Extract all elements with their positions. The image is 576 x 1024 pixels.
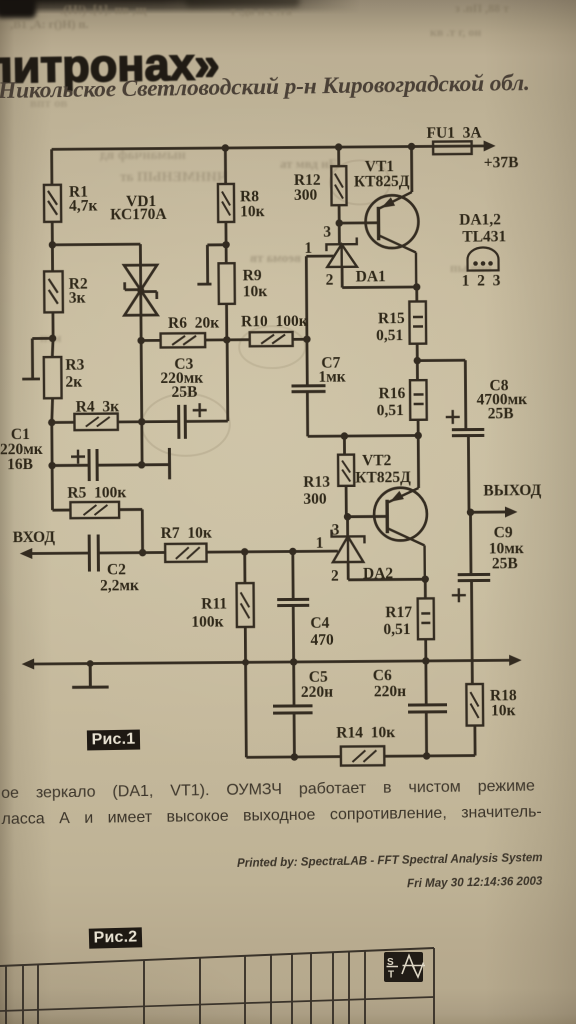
stamp smudge 3 xyxy=(330,160,390,204)
capacitor C1 xyxy=(71,449,97,481)
node R7-R11 xyxy=(241,548,248,555)
node R3-R4 xyxy=(48,419,55,426)
resistor R4 xyxy=(74,414,117,431)
resistor R17 xyxy=(418,598,434,639)
node R2-R3 xyxy=(49,335,56,342)
SpectraLAB logo xyxy=(384,952,425,982)
wire R3 bottom xyxy=(52,398,53,422)
resistor R15 xyxy=(409,301,426,343)
node VD1-R6 xyxy=(137,337,144,344)
wire output arrowhead xyxy=(505,506,518,517)
wire C5 top lead xyxy=(292,662,295,706)
capacitor C3 xyxy=(179,403,207,439)
op-amp DA1 TL431 xyxy=(326,237,357,267)
wire DA2 pin3 xyxy=(346,517,349,537)
wire R1 to R2 xyxy=(51,222,54,271)
wire left column to R5 xyxy=(52,422,71,510)
figure label Рис.1 xyxy=(87,730,140,751)
fuse FU1 xyxy=(433,141,472,154)
resistor R14 xyxy=(341,746,385,765)
resistor R8 xyxy=(218,184,234,222)
wire R11 top lead xyxy=(243,552,246,583)
wire VD1 top lead xyxy=(139,244,143,340)
wire bottom return xyxy=(246,756,475,758)
capacitor C6 xyxy=(408,705,447,712)
wire R8 top lead xyxy=(224,148,227,184)
node VT1 emitter rail xyxy=(408,143,415,150)
resistor R5 xyxy=(70,502,119,518)
wire DA1 pin1 xyxy=(306,255,334,258)
capacitor C2 xyxy=(89,534,98,571)
wire rail left arrowhead xyxy=(22,659,35,670)
resistor R3 trimmer body xyxy=(44,357,62,398)
wire VT2 base xyxy=(348,515,388,518)
node C1 left xyxy=(48,462,55,469)
resistor R6 xyxy=(161,333,206,347)
wire rail right arrowhead xyxy=(509,655,522,666)
node rail-ground xyxy=(87,660,94,667)
node VT1 collector R15 xyxy=(413,283,420,290)
wire R12 top lead xyxy=(337,147,340,166)
resistor R12 xyxy=(331,166,346,205)
wire R4 left lead xyxy=(52,421,75,424)
wire input arrowhead xyxy=(20,548,33,559)
wire R11 bottom column xyxy=(245,627,246,757)
grid right border xyxy=(433,948,435,1024)
wire R18 bottom lead xyxy=(473,726,476,756)
wire R9 bottom xyxy=(225,304,228,340)
capacitor C5 xyxy=(273,706,313,713)
resistor R2 xyxy=(44,271,63,312)
resistor R11 xyxy=(237,583,254,627)
subheading xyxy=(0,69,576,105)
node R6-R9-R10-C3 xyxy=(223,336,230,343)
wire top rail xyxy=(52,146,487,149)
wire C3 right lead riser xyxy=(185,340,228,422)
svg-text:T: T xyxy=(388,970,394,981)
TL431 package symbol xyxy=(467,247,498,270)
wire VT1 base xyxy=(339,221,378,224)
wire +37V arrowhead xyxy=(484,140,496,151)
wire R12 bottom lead xyxy=(338,205,341,223)
bleed-through marks xyxy=(60,2,147,18)
wire R3 wiper bracket xyxy=(22,338,53,379)
wire output line xyxy=(470,511,507,514)
capacitor C8 xyxy=(446,410,485,436)
wire C9-R18 column xyxy=(470,512,472,684)
node bottom-C5 xyxy=(291,753,298,760)
node DA2-R17-VT2 collector xyxy=(421,575,428,582)
wire R8 to R9 xyxy=(225,222,228,263)
node R13 top xyxy=(341,432,348,439)
resistor R13 xyxy=(338,455,354,486)
wire R13 column xyxy=(344,436,346,517)
node R7-C4 xyxy=(289,548,296,555)
wire DA2 pin2 xyxy=(348,561,425,579)
resistor R10 xyxy=(250,332,293,346)
grid second horizontal xyxy=(0,997,434,1011)
node C2-R5 xyxy=(139,549,146,556)
resistor R16 xyxy=(410,380,427,420)
wire C8 branch xyxy=(417,360,466,429)
wire C2 right lead xyxy=(98,551,165,554)
node R16-VT2 emitter xyxy=(414,432,421,439)
wire R5 right riser xyxy=(119,509,143,552)
capacitor C7 xyxy=(291,386,325,392)
wire C3 left lead xyxy=(142,420,179,423)
node 3 DA1 xyxy=(335,219,342,226)
wire C4 bottom lead xyxy=(292,605,295,661)
wire C1 left lead xyxy=(52,464,89,467)
stamp smudge 1 xyxy=(142,393,230,456)
wire R4 right lead xyxy=(118,420,142,423)
wire bottom rail xyxy=(31,660,512,664)
node rail-R17-C6 xyxy=(422,657,429,664)
ground xyxy=(72,663,109,687)
wire R15-R16 xyxy=(416,344,419,380)
resistor R1 xyxy=(44,185,61,222)
node rail-R11 xyxy=(242,659,249,666)
node R1-R2 junction xyxy=(49,241,56,248)
wire R9 wiper bracket xyxy=(197,245,226,284)
wire C4 top lead xyxy=(291,551,294,599)
wire C5 bottom lead xyxy=(293,713,296,757)
node R10-C7 column xyxy=(303,336,310,343)
wire C1 right lead xyxy=(97,463,169,466)
wire VT2 emitter lead xyxy=(417,435,420,487)
node output tap xyxy=(467,509,474,516)
wire R1 column top xyxy=(50,149,53,184)
grid top border xyxy=(0,948,434,966)
node R8-R9 xyxy=(222,241,229,248)
wire R10 left lead xyxy=(227,338,250,341)
wire R2 to R3 node xyxy=(52,312,53,357)
wire VT1 emitter lead xyxy=(410,147,413,192)
node R8 top rail xyxy=(222,144,229,151)
wire R17 top lead xyxy=(424,579,427,598)
wire R16 bottom lead xyxy=(417,420,420,436)
wire R17 bottom lead xyxy=(424,639,427,661)
resistor R7 xyxy=(165,544,206,562)
wire VD1 bottom column xyxy=(140,341,144,465)
wire R6 right lead xyxy=(205,338,227,341)
wire R7 right lead xyxy=(206,551,337,552)
wire node to VD1 xyxy=(52,243,140,246)
node VD1-R4-C3 xyxy=(138,418,145,425)
capacitor C9 xyxy=(452,574,491,602)
wire C7 column lower xyxy=(307,391,418,437)
wire C6 top lead xyxy=(424,661,427,705)
resistor R18 xyxy=(466,684,483,726)
wire terminal bar xyxy=(168,448,171,479)
resistor R9 trimmer body xyxy=(219,263,235,304)
node R12 top rail xyxy=(335,143,342,150)
grid vertical lines xyxy=(6,951,365,1024)
zener VD1 xyxy=(124,265,157,315)
node bottom-C6 xyxy=(423,752,430,759)
wire DA1 pin2 xyxy=(342,266,417,287)
wire R6 left lead xyxy=(141,339,160,342)
wire DA1 pin3 xyxy=(338,223,341,244)
wire C6 bottom lead xyxy=(425,712,428,756)
node C8 branch xyxy=(414,357,421,364)
stamp smudge 2 xyxy=(239,326,305,369)
capacitor C4 xyxy=(277,599,309,605)
node C1 right / VD1 column xyxy=(138,461,145,468)
heading fragment xyxy=(0,38,220,94)
op-amp DA2 TL431 xyxy=(332,529,365,562)
wire C8 bottom lead xyxy=(467,436,470,513)
transistor VT2 xyxy=(374,488,428,580)
node VT2 base DA2 pin3 xyxy=(344,513,351,520)
wire R10 right lead xyxy=(293,338,307,341)
bottom paragraph xyxy=(1,773,547,832)
figure label Рис.2 xyxy=(89,927,143,948)
wire R15 top lead xyxy=(415,287,418,301)
wire C7 column upper xyxy=(306,256,307,385)
transistor VT1 xyxy=(365,192,419,287)
node rail-C4-C5 xyxy=(290,658,297,665)
wire input line xyxy=(29,552,89,555)
